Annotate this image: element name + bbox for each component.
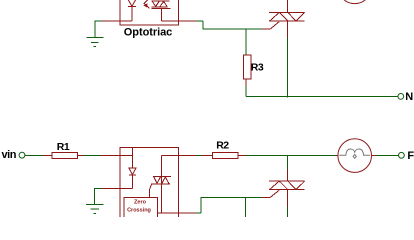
optotriac U1 box (top, cut off) <box>120 0 179 25</box>
triac Q2 (bottom main triac) <box>269 169 305 207</box>
R1 right lead <box>77 154 83 156</box>
svg-text:F: F <box>407 150 414 162</box>
wire U2 to R2 <box>196 154 201 156</box>
ground GND1 <box>86 21 103 46</box>
LED D1 inside U1 <box>128 0 136 21</box>
zero crossing sub-box <box>124 197 158 219</box>
svg-text:R3: R3 <box>251 61 264 73</box>
ground GND2 <box>86 189 104 214</box>
wire vin to R1 <box>25 154 43 156</box>
R2 left lead <box>201 154 213 156</box>
wire lamp branch to triac Q2 <box>287 155 289 169</box>
LED D2 inside U2 <box>129 147 136 188</box>
U1 internal wire / right pin <box>161 20 196 22</box>
lamp L2 <box>338 139 372 173</box>
terminal node F <box>399 152 405 158</box>
wire U1 right pin to gate (step) <box>196 21 262 29</box>
node junction down (R-equiv, cut off) <box>245 197 247 218</box>
lamp L2 filament glyph <box>339 149 370 158</box>
wire lamp to terminal F <box>376 154 399 156</box>
terminal node N <box>398 94 404 100</box>
wire triac Q1 to N rail <box>287 38 289 98</box>
lamp L1 (top, cut off) <box>338 0 372 4</box>
photo-triac inside U2 <box>149 155 171 213</box>
photon arrow inside U1 <box>143 0 149 8</box>
svg-text:Optotriac: Optotriac <box>124 26 172 38</box>
photo-triac inside U1 <box>152 1 171 21</box>
U2 right pin (top) <box>162 154 196 156</box>
U1 left pin <box>102 20 132 22</box>
terminal node vin <box>19 152 25 158</box>
wire R3 to N rail <box>245 86 247 97</box>
wire triac Q2 down (cut off) <box>287 207 289 218</box>
R3 bottom lead <box>245 79 247 86</box>
wire U2 bottom pin step up <box>196 197 262 213</box>
svg-text:R1: R1 <box>57 141 70 153</box>
svg-text:N: N <box>405 91 413 103</box>
svg-text:Zero: Zero <box>134 200 147 206</box>
svg-text:R2: R2 <box>216 140 229 152</box>
wire R2 to lamp <box>246 154 335 156</box>
wire gate segment (red) <box>262 22 279 29</box>
svg-text:vin: vin <box>2 149 17 161</box>
lamp L2 left lead <box>335 154 338 156</box>
U2 left pin <box>100 154 132 156</box>
wire gate segment (red) <box>262 190 279 197</box>
node junction to R3 <box>245 29 247 55</box>
resistor R3 <box>244 55 251 79</box>
wire N rail <box>246 95 398 97</box>
resistor R2 <box>213 152 238 158</box>
lamp L2 right lead <box>372 154 377 156</box>
R1 left lead <box>43 154 52 156</box>
optotriac U2 box (zero crossing) <box>120 147 179 221</box>
U2 bottom right pin <box>157 212 196 214</box>
triac Q1 (top main triac) <box>269 0 305 38</box>
wire R1 to U2 <box>84 154 100 156</box>
resistor R1 <box>52 152 77 158</box>
R2 right lead <box>238 154 246 156</box>
U2 left lower pin <box>102 188 132 190</box>
svg-text:Crossing: Crossing <box>127 208 151 214</box>
